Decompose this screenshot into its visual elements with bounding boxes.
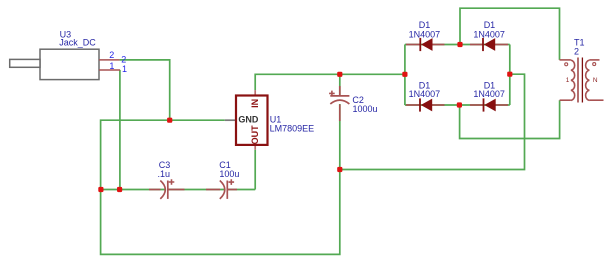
capacitor C2: [329, 86, 377, 121]
diode D1 bottom-left: [406, 80, 445, 111]
wire: [101, 120, 340, 254]
diode D1 top-right: [470, 20, 508, 51]
wire: [255, 74, 405, 90]
svg-text:1N4007: 1N4007: [409, 89, 441, 99]
capacitor C1: [206, 160, 239, 199]
wire: [101, 150, 256, 190]
svg-text:1: 1: [109, 61, 114, 71]
svg-text:100u: 100u: [219, 169, 239, 179]
wire: [405, 44, 510, 46]
diode D1 bottom-right: [470, 80, 508, 111]
svg-text:.1u: .1u: [158, 169, 171, 179]
svg-text:OUT: OUT: [250, 125, 260, 145]
svg-text:2: 2: [109, 50, 114, 60]
node bridge top center: [457, 42, 462, 47]
node bridge bottom center: [457, 102, 462, 107]
diode D1 top-left: [406, 20, 445, 51]
svg-text:1000u: 1000u: [353, 104, 378, 114]
svg-text:Jack_DC: Jack_DC: [59, 38, 96, 48]
wire: [405, 104, 510, 106]
wire: [120, 60, 170, 120]
svg-text:1: 1: [566, 77, 570, 84]
node bridge right mid: [507, 72, 512, 77]
node pin1 wire / cap rail: [117, 187, 122, 192]
regulator U1 LM7809EE: [225, 90, 314, 150]
svg-text:2: 2: [574, 47, 579, 57]
transformer T1: [560, 37, 604, 102]
wire: [509, 45, 511, 106]
wire: [339, 74, 341, 169]
svg-text:1N4007: 1N4007: [473, 29, 505, 39]
svg-text:1N4007: 1N4007: [409, 29, 441, 39]
node pin2/GND rail junction: [167, 118, 172, 123]
wire: [460, 100, 560, 138]
wire: [340, 74, 525, 169]
wire: [119, 70, 121, 190]
svg-text:1N4007: 1N4007: [473, 89, 505, 99]
capacitor C3: [149, 160, 185, 199]
node bridge left mid: [402, 72, 407, 77]
wire: [404, 45, 406, 106]
svg-text:2: 2: [121, 55, 126, 65]
node left vertical / cap rail: [98, 187, 103, 192]
svg-text:LM7809EE: LM7809EE: [270, 124, 315, 134]
connector U3 Jack_DC: [10, 30, 127, 80]
svg-text:IN: IN: [250, 99, 260, 108]
node C2 bottom junction: [337, 167, 342, 172]
node C2 top: [337, 72, 342, 77]
wire: [460, 8, 560, 60]
svg-text:GND: GND: [238, 115, 259, 125]
svg-text:N: N: [593, 77, 598, 84]
svg-text:1: 1: [122, 64, 127, 74]
